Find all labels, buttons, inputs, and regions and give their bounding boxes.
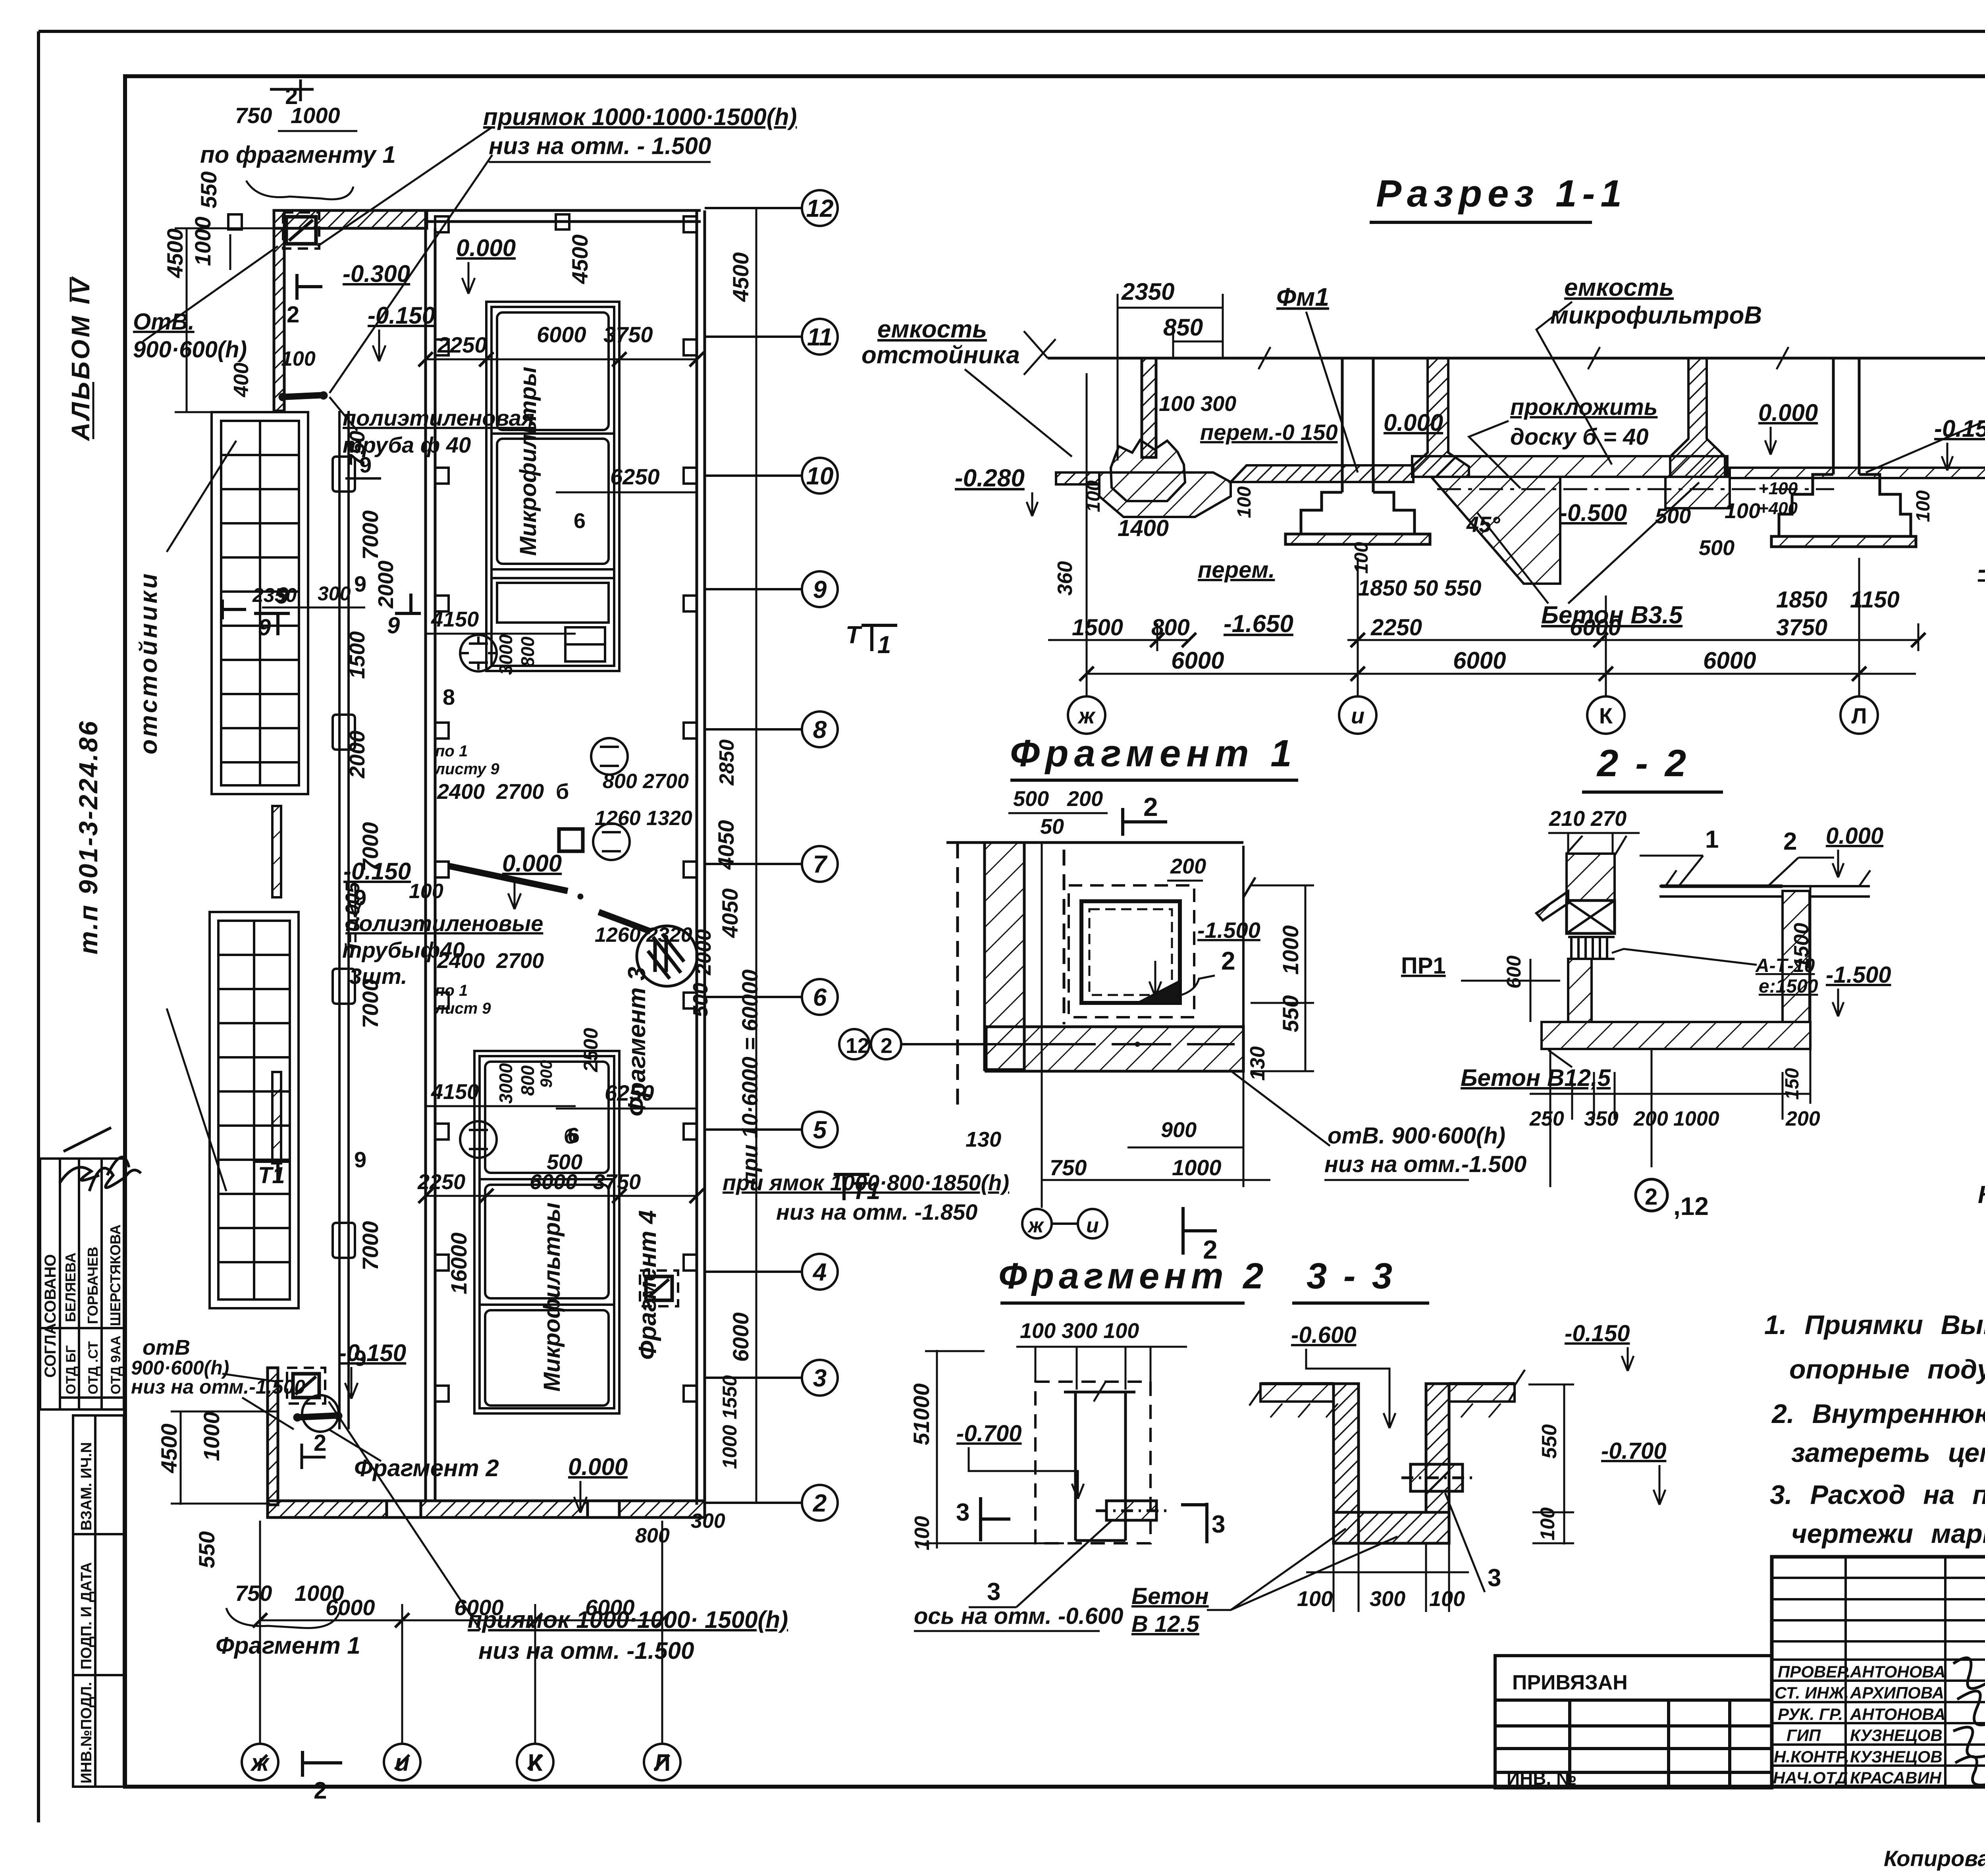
svg-text:Микрофильтры: Микрофильтры bbox=[515, 367, 541, 556]
plan: building outer walls bbox=[268, 210, 705, 1517]
svg-text:при ямок 1000·800·1850(h): при ямок 1000·800·1850(h) bbox=[723, 1170, 1009, 1195]
svg-text:КУЗНЕЦОВ: КУЗНЕЦОВ bbox=[1850, 1747, 1943, 1766]
title block left signature grid bbox=[1772, 1557, 1985, 1787]
plan: central channel double line with pipe clamps bbox=[333, 411, 355, 1429]
dimension tick marks bbox=[253, 352, 1925, 1769]
section 2-2: pit walls and floor bbox=[1542, 870, 1870, 1049]
svg-text:,12: ,12 bbox=[1673, 1192, 1709, 1220]
svg-text:1150: 1150 bbox=[1850, 587, 1900, 613]
svg-text:низ на отм. - 1.500: низ на отм. - 1.500 bbox=[489, 133, 711, 159]
svg-text:-0.280: -0.280 bbox=[955, 465, 1025, 492]
svg-text:Бетон: Бетон bbox=[1131, 1583, 1209, 1609]
svg-text:6000: 6000 bbox=[1703, 647, 1756, 674]
svg-text:100 300 100: 100 300 100 bbox=[1020, 1319, 1139, 1343]
svg-text:1850 50 550: 1850 50 550 bbox=[1358, 575, 1481, 600]
svg-text:1260 2320: 1260 2320 bbox=[595, 924, 692, 947]
svg-text:Т1: Т1 bbox=[258, 1163, 285, 1188]
plan: priyamok squares bbox=[283, 212, 678, 1404]
svg-text:750: 750 bbox=[1050, 1155, 1087, 1180]
fragment 1: right break line bbox=[1243, 846, 1255, 1027]
plan: bottom dimension line 6000x3 bbox=[260, 1521, 662, 1743]
razrez: top slab line with break marks bbox=[1024, 331, 1985, 375]
svg-text:100: 100 bbox=[911, 1516, 934, 1550]
svg-text:-0.150: -0.150 bbox=[1934, 415, 1985, 442]
svg-text:2850: 2850 bbox=[715, 739, 738, 786]
svg-text:АНТОНОВА: АНТОНОВА bbox=[1850, 1705, 1946, 1724]
plan: detail circle for fragment 3 bbox=[637, 926, 697, 986]
section 2-2: upper wall hatched bbox=[1536, 836, 1627, 920]
svg-text:2: 2 bbox=[1221, 947, 1235, 975]
fragment 2: plug bbox=[1096, 1501, 1167, 1520]
svg-text:БЕЛЯЕВА: БЕЛЯЕВА bbox=[62, 1253, 79, 1322]
svg-text:В 12.5: В 12.5 bbox=[1131, 1611, 1200, 1637]
svg-text:АНТОНОВА: АНТОНОВА bbox=[1850, 1662, 1946, 1681]
svg-text:3000: 3000 bbox=[495, 1063, 516, 1104]
svg-text:прокложить: прокложить bbox=[1510, 394, 1657, 420]
svg-text:900·600(h): 900·600(h) bbox=[133, 337, 247, 362]
svg-text:100: 100 bbox=[281, 347, 316, 370]
svg-text:1400: 1400 bbox=[1118, 515, 1169, 541]
title block main outline bbox=[1772, 1557, 1985, 1787]
plan: column stubs along walls bbox=[228, 214, 697, 1402]
svg-text:9: 9 bbox=[354, 571, 366, 596]
svg-text:2350: 2350 bbox=[1121, 278, 1174, 305]
svg-text:750: 750 bbox=[235, 1581, 272, 1606]
left margin stamp: vzam/podp/inv boxes bbox=[73, 1415, 124, 1787]
svg-text:перем.: перем. bbox=[1198, 557, 1275, 583]
svg-text:1: 1 bbox=[877, 631, 891, 659]
svg-text:150: 150 bbox=[1782, 1068, 1803, 1100]
svg-text:0.000: 0.000 bbox=[456, 235, 516, 261]
svg-text:-0.150: -0.150 bbox=[339, 1340, 406, 1366]
svg-text:ПРОВЕР.: ПРОВЕР. bbox=[1778, 1662, 1851, 1681]
svg-text:2500: 2500 bbox=[580, 1028, 602, 1072]
svg-text:800 2700: 800 2700 bbox=[603, 770, 689, 793]
svg-text:6000: 6000 bbox=[1171, 647, 1224, 674]
svg-text:9: 9 bbox=[813, 576, 827, 603]
fragment 2: dashed rect bbox=[1035, 1382, 1151, 1543]
svg-text:45°: 45° bbox=[1466, 512, 1500, 537]
svg-text:6000: 6000 bbox=[530, 1170, 577, 1194]
svg-text:ПОДП. И ДАТА: ПОДП. И ДАТА bbox=[78, 1562, 95, 1670]
svg-text:100: 100 bbox=[1351, 542, 1372, 574]
svg-text:550: 550 bbox=[1278, 995, 1303, 1032]
svg-text:ж: ж bbox=[1077, 703, 1096, 728]
svg-text:6000: 6000 bbox=[537, 322, 586, 347]
svg-text:3: 3 bbox=[813, 1365, 827, 1392]
svg-text:1000: 1000 bbox=[291, 103, 340, 128]
wire inner corridor wall bbox=[424, 210, 427, 1501]
svg-text:2250: 2250 bbox=[437, 332, 487, 357]
svg-text:2: 2 bbox=[287, 302, 299, 328]
fragment 1: pit inner square bbox=[1081, 901, 1180, 1003]
svg-text:-0.600: -0.600 bbox=[1291, 1322, 1356, 1348]
section 3-3: ground right bbox=[1449, 1370, 1525, 1417]
svg-text:200: 200 bbox=[1785, 1107, 1820, 1130]
wire top wall hatched band bbox=[274, 210, 427, 228]
svg-text:4050: 4050 bbox=[713, 820, 738, 870]
svg-text:3750: 3750 bbox=[593, 1170, 641, 1194]
svg-text:6250: 6250 bbox=[605, 1080, 654, 1105]
wire top wall thin part bbox=[427, 209, 701, 212]
svg-text:+400: +400 bbox=[1758, 499, 1798, 518]
svg-text:1000: 1000 bbox=[1673, 1107, 1719, 1130]
plan: microfilter tank block 1 bbox=[486, 302, 619, 671]
svg-text:-1.500: -1.500 bbox=[1197, 918, 1260, 943]
svg-text:Фрагмент 4: Фрагмент 4 bbox=[634, 1210, 661, 1360]
svg-text:600: 600 bbox=[1503, 955, 1525, 989]
section 2-2: grille below box bbox=[1571, 937, 1607, 959]
svg-text:5: 5 bbox=[813, 1116, 827, 1144]
svg-text:затереть цементно-песчаным р: затереть цементно-песчаным раствором. bbox=[1791, 1438, 1985, 1468]
svg-text:2 - 2: 2 - 2 bbox=[1596, 742, 1689, 785]
svg-text:6: 6 bbox=[813, 984, 827, 1011]
svg-text:100: 100 bbox=[1913, 490, 1934, 522]
svg-text:емкость: емкость bbox=[1564, 274, 1674, 301]
svg-text:250: 250 bbox=[1529, 1107, 1564, 1130]
section 2-2: x-box bbox=[1567, 900, 1615, 933]
signatures column scribbles bbox=[1953, 1658, 1985, 1785]
svg-text:-0.150: -0.150 bbox=[1565, 1321, 1630, 1346]
svg-text:перем.-0 150: перем.-0 150 bbox=[1200, 420, 1337, 445]
svg-text:НАЧ.ОТД: НАЧ.ОТД bbox=[1773, 1768, 1848, 1787]
svg-text:3000: 3000 bbox=[495, 634, 516, 675]
plan: settler tank ladder B bbox=[210, 912, 299, 1308]
svg-text:приямок 1000·1000·1500(h): приямок 1000·1000·1500(h) bbox=[483, 104, 797, 130]
svg-text:1000 1550: 1000 1550 bbox=[719, 1375, 741, 1469]
svg-text:0.000: 0.000 bbox=[1826, 823, 1883, 849]
svg-text:850: 850 bbox=[1163, 314, 1203, 341]
plan: cut 2 below priyamok bbox=[297, 274, 322, 300]
svg-text:-0.300: -0.300 bbox=[343, 260, 410, 287]
svg-text:2: 2 bbox=[813, 1490, 827, 1517]
svg-text:500: 500 bbox=[1699, 536, 1734, 560]
svg-text:2350: 2350 bbox=[252, 584, 297, 606]
svg-text:2400: 2400 bbox=[437, 780, 485, 804]
svg-text:3. Расход на полиэтиленовые: 3. Расход на полиэтиленовые трубы см. bbox=[1770, 1480, 1985, 1510]
svg-text:4: 4 bbox=[812, 1259, 827, 1286]
svg-text:50: 50 bbox=[1040, 815, 1064, 839]
svg-text:низ на отм.-1.500: низ на отм.-1.500 bbox=[1324, 1151, 1526, 1177]
svg-text:1. Приямки Выполнять из бето: 1. Приямки Выполнять из бетона В 12.5, л… bbox=[1764, 1310, 1985, 1340]
svg-text:16000: 16000 bbox=[446, 1232, 471, 1294]
plan: bottom axis bubbles bbox=[242, 1744, 680, 1780]
svg-text:2: 2 bbox=[314, 1777, 327, 1804]
svg-text:2: 2 bbox=[314, 1430, 326, 1456]
svg-text:4150: 4150 bbox=[431, 607, 479, 631]
plan: thick pipe diagonals bbox=[449, 866, 568, 891]
svg-text:200: 200 bbox=[1633, 1107, 1668, 1130]
svg-text:ГОРБАЧЕВ: ГОРБАЧЕВ bbox=[85, 1247, 101, 1324]
svg-text:100: 100 bbox=[1297, 1587, 1333, 1611]
section 3-3: pit U shape hatched bbox=[1334, 1384, 1449, 1543]
svg-text:800: 800 bbox=[1151, 615, 1190, 640]
svg-text:лист 9: лист 9 bbox=[434, 1000, 491, 1017]
svg-text:ГИП: ГИП bbox=[1786, 1726, 1821, 1745]
svg-text:ось на отм. -0.600: ось на отм. -0.600 bbox=[914, 1603, 1123, 1629]
svg-text:1500: 1500 bbox=[345, 631, 369, 679]
svg-text:по фрагменту 1: по фрагменту 1 bbox=[200, 141, 396, 168]
plan: pump circles bbox=[460, 635, 630, 1158]
svg-text:чертежи марки ЭМ.: чертежи марки ЭМ. bbox=[1791, 1519, 1985, 1549]
svg-text:2000: 2000 bbox=[374, 561, 398, 609]
svg-text:9: 9 bbox=[387, 613, 400, 638]
svg-text:полиэтиленовая: полиэтиленовая bbox=[343, 405, 534, 430]
svg-text:1000: 1000 bbox=[199, 1411, 224, 1461]
svg-text:отВ: отВ bbox=[143, 1336, 190, 1359]
svg-text:е:1500: е:1500 bbox=[1759, 976, 1818, 997]
svg-text:4050: 4050 bbox=[717, 888, 742, 938]
svg-text:2000: 2000 bbox=[345, 731, 369, 779]
svg-text:900: 900 bbox=[537, 1060, 555, 1088]
svg-text:1000: 1000 bbox=[1172, 1155, 1222, 1180]
svg-text:1: 1 bbox=[1705, 826, 1719, 853]
svg-text:7: 7 bbox=[813, 851, 828, 878]
svg-text:при 10·6000 = 60000: при 10·6000 = 60000 bbox=[737, 970, 762, 1185]
svg-text:0.000: 0.000 bbox=[568, 1454, 628, 1480]
svg-text:3750: 3750 bbox=[1776, 615, 1827, 640]
svg-text:6000: 6000 bbox=[454, 1595, 504, 1620]
svg-text:0.000: 0.000 bbox=[1384, 409, 1443, 436]
svg-text:200: 200 bbox=[1170, 854, 1206, 878]
svg-text:2: 2 bbox=[1645, 1184, 1657, 1210]
svg-text:2250: 2250 bbox=[417, 1170, 465, 1194]
svg-text:Фрагмент 1: Фрагмент 1 bbox=[216, 1632, 360, 1659]
svg-text:опорные подушки из бетона В: опорные подушки из бетона В7.5. bbox=[1789, 1354, 1985, 1384]
svg-text:по 1: по 1 bbox=[435, 982, 468, 999]
svg-text:-0.700: -0.700 bbox=[956, 1421, 1021, 1446]
fragment 2: channel walls bbox=[1064, 1382, 1135, 1541]
svg-text:-1.650: -1.650 bbox=[1978, 556, 1985, 583]
svg-text:низ на отм.-1.500: низ на отм.-1.500 bbox=[131, 1376, 305, 1398]
svg-text:отВ. 900·600(h): отВ. 900·600(h) bbox=[1328, 1123, 1505, 1149]
svg-text:3: 3 bbox=[1212, 1511, 1225, 1538]
razrez: central floor thick band bbox=[1412, 456, 1727, 477]
svg-text:АРХИПОВА: АРХИПОВА bbox=[1850, 1683, 1944, 1702]
svg-text:ПР1: ПР1 bbox=[1401, 953, 1446, 979]
svg-text:отстойники: отстойники bbox=[135, 571, 162, 754]
svg-text:Фрагмент 2: Фрагмент 2 bbox=[998, 1256, 1268, 1296]
svg-text:8: 8 bbox=[443, 684, 455, 710]
svg-text:300: 300 bbox=[691, 1510, 725, 1533]
svg-text:12: 12 bbox=[806, 195, 834, 222]
fragment 2: cut marks 3 bbox=[956, 1497, 1225, 1543]
privyazan table bbox=[1495, 1656, 1772, 1788]
svg-text:ОТД БГ: ОТД БГ bbox=[64, 1345, 79, 1394]
svg-text:ШЕРСТЯКОВА: ШЕРСТЯКОВА bbox=[107, 1224, 123, 1326]
svg-text:2: 2 bbox=[1143, 792, 1158, 821]
svg-text:400: 400 bbox=[230, 362, 253, 397]
wire left wall bbox=[274, 210, 284, 411]
svg-text:2400: 2400 bbox=[437, 949, 485, 973]
svg-text:ПРИВЯЗАН: ПРИВЯЗАН bbox=[1512, 1671, 1628, 1694]
svg-text:-0.150: -0.150 bbox=[368, 302, 435, 329]
wire right wall bbox=[696, 210, 698, 1505]
svg-text:350: 350 bbox=[1584, 1107, 1619, 1130]
svg-text:Бетон В12,5: Бетон В12,5 bbox=[1461, 1064, 1611, 1091]
svg-text:2. Внутреннюю поверхность пр: 2. Внутреннюю поверхность приямков и кан… bbox=[1771, 1399, 1985, 1429]
svg-text:ИНВ.№ПОДЛ.: ИНВ.№ПОДЛ. bbox=[78, 1682, 95, 1783]
razrez: column axis I with foundation bbox=[1285, 358, 1430, 544]
svg-text:и: и bbox=[1086, 1214, 1099, 1237]
svg-text:1850: 1850 bbox=[1776, 587, 1827, 613]
svg-text:6: 6 bbox=[574, 509, 586, 533]
svg-text:9: 9 bbox=[276, 583, 289, 609]
svg-text:100: 100 bbox=[1725, 499, 1760, 523]
svg-text:6000: 6000 bbox=[1453, 647, 1506, 674]
svg-text:+100: +100 bbox=[1758, 479, 1798, 498]
svg-text:Фм1: Фм1 bbox=[1276, 283, 1329, 311]
svg-text:2700: 2700 bbox=[496, 949, 544, 973]
section 3-3: ground left bbox=[1249, 1384, 1338, 1417]
plan: right vertical dimension chain bbox=[755, 208, 757, 1503]
fragment 1: axis bubbles 12 2 bbox=[839, 1029, 869, 1059]
plan: microfilter tank block 2 bbox=[474, 1051, 619, 1413]
svg-text:12: 12 bbox=[846, 1034, 869, 1058]
svg-text:0.000: 0.000 bbox=[1758, 399, 1818, 426]
svg-text:ж: ж bbox=[1027, 1214, 1045, 1237]
svg-text:3750: 3750 bbox=[603, 322, 653, 347]
svg-text:6000: 6000 bbox=[326, 1595, 375, 1620]
svg-text:Копировал: Боброва: Копировал: Боброва bbox=[1884, 1846, 1985, 1871]
svg-text:9: 9 bbox=[258, 615, 271, 640]
svg-text:210 270: 210 270 bbox=[1549, 807, 1627, 831]
section 2-2: axis bubble 2,12 bbox=[1636, 1179, 1667, 1211]
svg-text:130: 130 bbox=[1246, 1046, 1269, 1081]
razrez: wall hatched at axis I right bbox=[1412, 358, 1469, 477]
svg-text:доску б = 40: доску б = 40 bbox=[1510, 424, 1649, 450]
svg-text:550: 550 bbox=[194, 1531, 219, 1568]
section 2-2: top slab detail left of right wall bbox=[1661, 885, 1783, 888]
svg-text:3: 3 bbox=[1488, 1564, 1501, 1592]
razrez: wall K with pad bbox=[1665, 358, 1730, 508]
section 3-3: plug box bbox=[1401, 1464, 1473, 1491]
svg-text:1260 1320: 1260 1320 bbox=[595, 807, 692, 830]
svg-text:3: 3 bbox=[987, 1578, 1000, 1606]
svg-text:4500: 4500 bbox=[156, 1423, 181, 1473]
svg-text:б: б bbox=[556, 780, 569, 804]
svg-text:СТ. ИНЖ.: СТ. ИНЖ. bbox=[1775, 1683, 1849, 1702]
svg-text:К: К bbox=[1599, 703, 1613, 728]
svg-text:100: 100 bbox=[1234, 486, 1255, 518]
left margin stamp: soglasovano table bbox=[40, 1159, 124, 1409]
plan: settler tank ladder A bbox=[212, 412, 308, 794]
svg-text:6: 6 bbox=[568, 1124, 580, 1147]
section 2-2: bottom dims bbox=[1530, 1049, 1810, 1187]
svg-text:РУК. ГР.: РУК. ГР. bbox=[1778, 1705, 1843, 1724]
svg-text:7000: 7000 bbox=[358, 510, 383, 560]
svg-text:ОТД 9АА: ОТД 9АА bbox=[108, 1336, 123, 1394]
svg-text:-0.500: -0.500 bbox=[1559, 499, 1627, 526]
svg-text:500: 500 bbox=[1013, 787, 1049, 811]
svg-text:200: 200 bbox=[1067, 787, 1103, 811]
svg-text:2: 2 bbox=[285, 83, 298, 109]
svg-text:6000: 6000 bbox=[1570, 615, 1621, 640]
svg-text:листу 9: листу 9 bbox=[434, 760, 499, 778]
signatures above stamp bbox=[60, 1128, 141, 1191]
svg-text:3 - 3: 3 - 3 bbox=[1307, 1256, 1395, 1296]
svg-text:0.000: 0.000 bbox=[502, 850, 562, 877]
fragment 1: dashed outer square of pit bbox=[1069, 885, 1194, 1017]
svg-text:КУЗНЕЦОВ: КУЗНЕЦОВ bbox=[1850, 1726, 1943, 1745]
svg-text:6000: 6000 bbox=[728, 1312, 753, 1362]
svg-text:8: 8 bbox=[813, 716, 827, 744]
svg-text:2250: 2250 bbox=[1370, 615, 1422, 640]
svg-text:Л: Л bbox=[1851, 703, 1867, 728]
svg-text:11: 11 bbox=[807, 324, 833, 351]
svg-text:300: 300 bbox=[318, 582, 351, 605]
razrez: excavation wedge 45deg bbox=[1431, 477, 1560, 584]
svg-text:СОГЛАСОВАНО: СОГЛАСОВАНО bbox=[42, 1254, 59, 1378]
svg-text:4500: 4500 bbox=[162, 228, 187, 278]
svg-text:3шт.: 3шт. bbox=[349, 964, 407, 989]
svg-text:микрофильтроВ: микрофильтроВ bbox=[1550, 302, 1762, 329]
section 3-3: bottom dims bbox=[1306, 1544, 1469, 1612]
svg-text:Т: Т bbox=[846, 621, 863, 649]
svg-text:Фрагмент 1: Фрагмент 1 bbox=[1010, 732, 1297, 775]
svg-text:емкость: емкость bbox=[877, 316, 987, 343]
plan: connecting stub between ladders bbox=[272, 806, 281, 1163]
svg-text:2: 2 bbox=[1783, 828, 1797, 855]
wire bottom wall hatched band bbox=[268, 1501, 387, 1517]
svg-text:360: 360 bbox=[1054, 561, 1077, 596]
svg-text:Разрез 1-1: Разрез 1-1 bbox=[1376, 172, 1627, 215]
svg-text:-1.650: -1.650 bbox=[1224, 610, 1293, 638]
svg-text:51000: 51000 bbox=[909, 1383, 934, 1445]
svg-text:ИНВ. №: ИНВ. № bbox=[1507, 1768, 1576, 1789]
svg-text:550: 550 bbox=[196, 172, 221, 208]
svg-text:КРАСАВИН: КРАСАВИН bbox=[1850, 1768, 1942, 1787]
svg-text:500: 500 bbox=[689, 983, 712, 1017]
svg-text:6000: 6000 bbox=[585, 1595, 635, 1620]
svg-text:ОТД .СТ: ОТД .СТ bbox=[86, 1341, 101, 1394]
svg-text:низ на отм. -1.850: низ на отм. -1.850 bbox=[776, 1199, 977, 1224]
fragment 1: bottom axis bubbles bbox=[1022, 1209, 1052, 1238]
svg-text:9: 9 bbox=[354, 1147, 366, 1172]
svg-text:1000: 1000 bbox=[190, 216, 215, 266]
svg-text:100: 100 bbox=[1429, 1587, 1465, 1611]
svg-text:2: 2 bbox=[881, 1034, 892, 1058]
svg-text:4150: 4150 bbox=[431, 1080, 479, 1104]
svg-text:4500: 4500 bbox=[567, 234, 592, 284]
svg-text:900: 900 bbox=[1161, 1118, 1197, 1142]
svg-text:100 300: 100 300 bbox=[1159, 392, 1236, 416]
svg-text:300: 300 bbox=[1370, 1587, 1405, 1611]
razrez: lower dim chains bbox=[1048, 373, 1918, 696]
svg-text:полиэтиленовые: полиэтиленовые bbox=[345, 911, 543, 936]
svg-text:и: и bbox=[1351, 703, 1364, 728]
svg-text:130: 130 bbox=[966, 1128, 1001, 1151]
svg-text:750: 750 bbox=[235, 103, 272, 128]
svg-text:по 1: по 1 bbox=[435, 742, 468, 760]
svg-text:550: 550 bbox=[1538, 1424, 1561, 1459]
svg-text:Н.КОНТР.: Н.КОНТР. bbox=[1774, 1747, 1849, 1766]
notes text block bbox=[1764, 1310, 1985, 1549]
fragment 1: top edge and walls bbox=[946, 843, 1243, 1112]
razrez: wall emkost otstoinika bbox=[1142, 358, 1156, 457]
svg-text:3: 3 bbox=[956, 1499, 969, 1526]
svg-text:отстойника: отстойника bbox=[861, 341, 1020, 369]
svg-text:1500: 1500 bbox=[1072, 615, 1123, 640]
svg-text:750: 750 bbox=[345, 431, 369, 467]
svg-text:-1.500: -1.500 bbox=[1826, 962, 1891, 988]
razrez: column axis L with foundation bbox=[1771, 358, 1916, 547]
plan: grid axis bubbles right side bbox=[705, 190, 838, 1521]
svg-text:6250: 6250 bbox=[610, 464, 660, 489]
razrez: floor band right of K bbox=[1730, 468, 1985, 478]
svg-text:Микрофильтры: Микрофильтры bbox=[539, 1203, 565, 1392]
razrez: left floor band and pit bbox=[1056, 465, 1413, 517]
